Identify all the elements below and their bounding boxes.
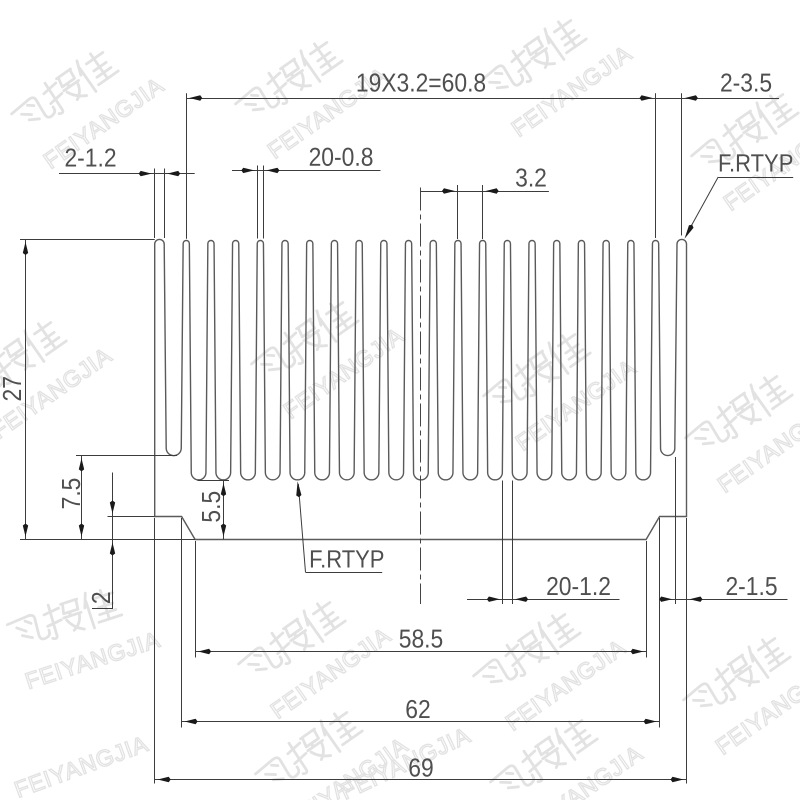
arrow 2-1.5 left (outside)	[659, 597, 672, 602]
leader arrow F.RTYP bottom	[296, 481, 301, 497]
svg-text:2: 2	[88, 591, 117, 604]
leader underline F.RTYP top	[718, 177, 793, 179]
arrow 69 right	[671, 777, 684, 782]
extension line right end of 19X3.2 span / left of 2-3.5	[655, 93, 657, 238]
dimension line 20-1.2	[467, 599, 620, 601]
bottom extension line for 27/7.5/2 dims	[20, 539, 195, 541]
svg-text:20-0.8: 20-0.8	[309, 143, 374, 172]
dimension line 3.2	[421, 191, 549, 193]
watermark tiles	[8, 28, 168, 173]
svg-text:20-1.2: 20-1.2	[546, 573, 611, 602]
extension line 69 left	[154, 518, 156, 784]
extension line first slot bottom for 7.5 dim	[76, 455, 177, 457]
arrow 3.2 right (outside)	[486, 188, 499, 193]
arrow 58.5 left	[198, 649, 211, 654]
arrow 5.5 top	[221, 483, 226, 496]
arrow 20-0.8 left (outside)	[241, 168, 254, 173]
arrow 62 left	[185, 719, 198, 724]
svg-text:7.5: 7.5	[58, 478, 87, 510]
dimension line 2-1.5	[661, 599, 788, 601]
arrow 27 bottom	[23, 524, 28, 537]
extension line 20-1.2 right	[512, 481, 514, 605]
heatsink extrusion profile outline	[155, 239, 687, 539]
svg-text:F.RTYP: F.RTYP	[309, 545, 384, 573]
extension line 3.2 right	[482, 185, 484, 239]
extension line slot root for 5.5 dim	[198, 480, 230, 482]
dimension line 2	[112, 473, 114, 610]
svg-text:2-3.5: 2-3.5	[720, 69, 772, 98]
arrow 2-1.2 right (outside)	[167, 171, 180, 176]
leader underline F.RTYP bottom	[306, 572, 383, 574]
dimension line 2-1.2	[59, 173, 195, 175]
extension line 62 right	[659, 518, 661, 728]
svg-text:27: 27	[0, 376, 27, 401]
arrow 5.5 bottom	[221, 524, 226, 537]
svg-text:69: 69	[408, 754, 433, 783]
arrow 60.8 left	[189, 95, 202, 100]
extension line 62 left	[181, 518, 183, 728]
dimension line 7.5	[81, 455, 83, 539]
dimension line 62	[182, 721, 660, 723]
extension line left end of 19X3.2 span	[186, 93, 188, 239]
arrow 20-1.2 left (outside)	[487, 597, 500, 602]
arrow 2 bottom (outside)	[110, 543, 115, 556]
extension line right of 2-3.5 span	[681, 93, 683, 235]
svg-text:2-1.5: 2-1.5	[725, 573, 777, 602]
dimension line 5.5	[223, 480, 225, 539]
extension line 69 right / 2-1.5 right	[686, 518, 688, 784]
arrow 2-1.5 right (outside)	[690, 597, 703, 602]
vertical centerline	[420, 188, 422, 605]
svg-text:58.5: 58.5	[399, 625, 444, 654]
extension line 58.5 right	[646, 541, 648, 658]
arrow 58.5 right	[631, 649, 644, 654]
svg-text:19X3.2=60.8: 19X3.2=60.8	[356, 69, 486, 98]
svg-text:2-1.2: 2-1.2	[64, 144, 116, 173]
arrow 7.5 top	[79, 458, 84, 471]
extension line 2-1.5 left	[675, 457, 677, 604]
top extension line for 27 dim	[20, 239, 155, 241]
svg-text:FEIYANGJIA: FEIYANGJIA	[11, 730, 152, 800]
svg-text:F.RTYP: F.RTYP	[718, 149, 793, 177]
arrow 2-1.2 left (outside)	[139, 171, 152, 176]
arrow 20-0.8 right (outside)	[266, 168, 279, 173]
svg-text:3.2: 3.2	[515, 164, 547, 193]
extension line 20-1.2 left	[502, 481, 504, 605]
dimension line 19X3.2=60.8 and 2-3.5	[186, 98, 779, 100]
extension line 20-0.8 left	[257, 166, 259, 239]
extension line 20-0.8 right	[263, 166, 265, 239]
arrow 3.2 left (outside)	[442, 188, 455, 193]
arrow 20-1.2 right (outside)	[515, 597, 528, 602]
arrow 2-3.5 right (outside)	[685, 95, 698, 100]
svg-text:5.5: 5.5	[198, 491, 227, 523]
arrow 2 top (outside)	[110, 501, 115, 514]
arrow 7.5 bottom	[79, 524, 84, 537]
extension line 2-1.2 left	[154, 169, 156, 239]
leader line F.RTYP bottom	[298, 484, 305, 572]
leader arrow F.RTYP top	[685, 225, 694, 239]
extension line step for 2 dim	[108, 516, 155, 518]
arrow 60.8 right / 2-3.5 left	[640, 95, 653, 100]
extension line 3.2 left	[457, 185, 459, 239]
dimension line 58.5	[195, 651, 646, 653]
arrow 62 right	[644, 719, 657, 724]
dimension line 27	[25, 239, 27, 540]
arrow 27 top	[23, 242, 28, 255]
svg-text:62: 62	[405, 696, 430, 725]
extension line 2-1.2 right	[164, 169, 166, 239]
arrow 69 left	[158, 777, 171, 782]
extension line 58.5 left	[195, 541, 197, 658]
leader line F.RTYP top	[687, 177, 718, 234]
dimension line 20-0.8	[232, 170, 381, 172]
text landing line for 2 dim	[92, 608, 113, 610]
dimension line 69	[155, 779, 687, 781]
